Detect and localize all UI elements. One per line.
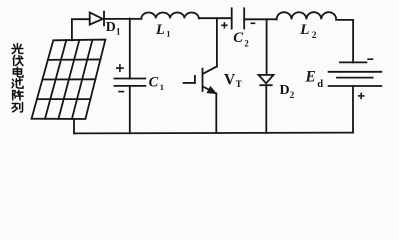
svg-text:C: C (233, 30, 243, 46)
svg-text:L: L (155, 22, 165, 38)
svg-text:1: 1 (116, 27, 121, 37)
svg-text:2: 2 (244, 38, 249, 48)
svg-text:1: 1 (160, 82, 164, 92)
svg-text:d: d (317, 79, 323, 90)
svg-text:E: E (305, 69, 316, 86)
svg-text:2: 2 (312, 31, 317, 41)
svg-text:1: 1 (166, 28, 170, 38)
svg-text:2: 2 (290, 90, 295, 100)
svg-text:V: V (224, 72, 236, 89)
svg-text:T: T (236, 79, 242, 89)
svg-text:L: L (299, 21, 309, 38)
svg-text:D: D (106, 19, 116, 34)
svg-text:C: C (149, 75, 159, 91)
svg-text:D: D (280, 83, 290, 98)
